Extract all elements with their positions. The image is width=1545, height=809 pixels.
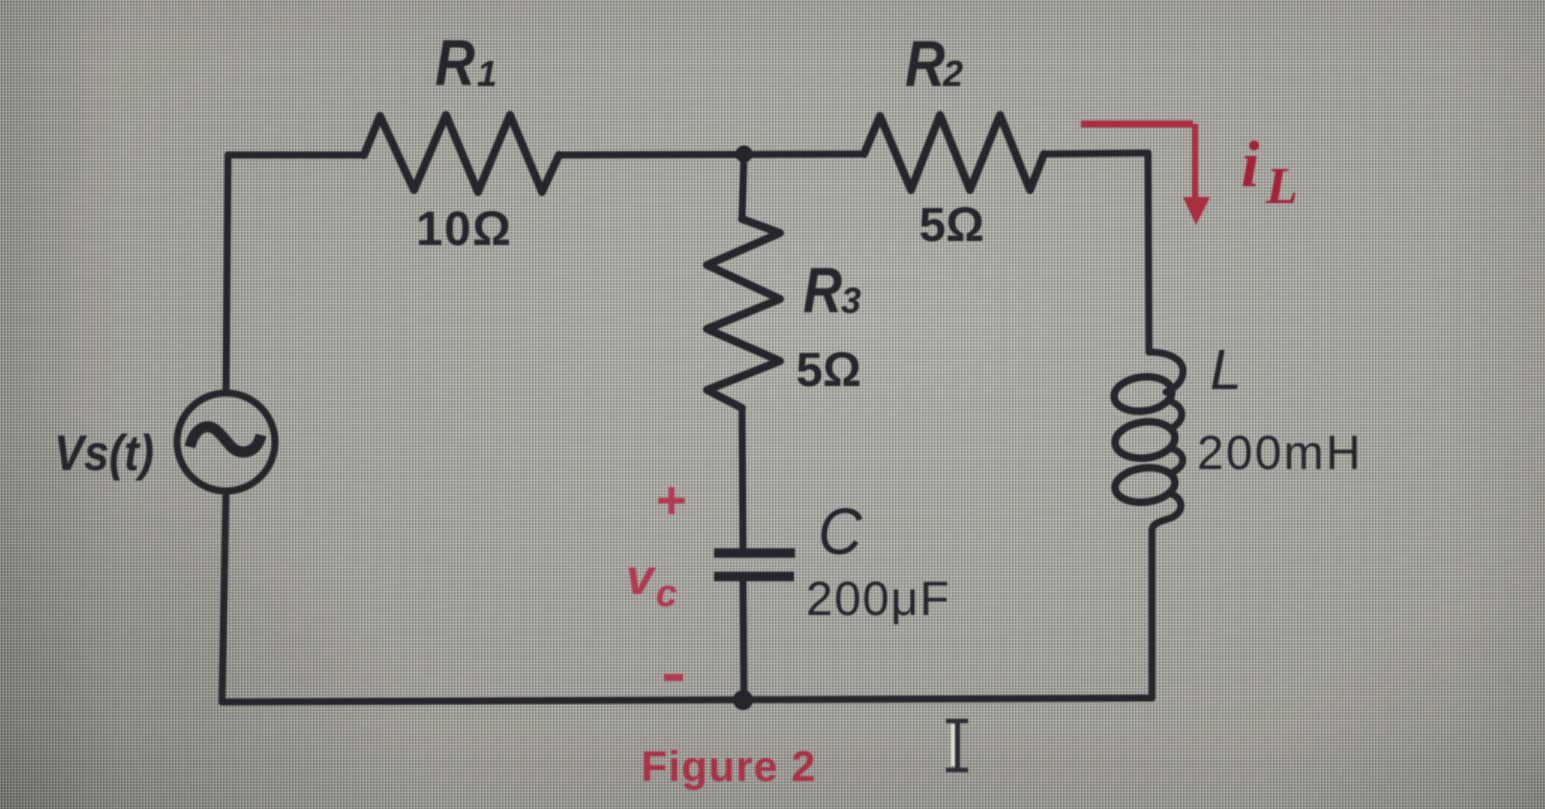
svg-text:1: 1 — [477, 53, 497, 94]
svg-text:2: 2 — [942, 53, 963, 94]
svg-text:3: 3 — [841, 280, 861, 321]
svg-text:10Ω: 10Ω — [416, 203, 512, 256]
svg-text:Figure 2: Figure 2 — [641, 743, 816, 791]
svg-text:L: L — [1265, 158, 1298, 215]
svg-text:200mH: 200mH — [1197, 427, 1363, 480]
svg-text:R: R — [803, 254, 842, 326]
svg-text:+: + — [656, 471, 687, 530]
svg-text:Vs(t): Vs(t) — [54, 425, 154, 481]
svg-text:vc: vc — [626, 549, 677, 615]
svg-text:R: R — [435, 26, 475, 99]
svg-text:5Ω: 5Ω — [919, 199, 984, 252]
svg-text:i: i — [1241, 128, 1260, 201]
svg-text:5Ω: 5Ω — [796, 344, 861, 397]
svg-text:R: R — [905, 27, 945, 100]
svg-text:C: C — [818, 494, 863, 568]
svg-text:L: L — [1210, 338, 1242, 402]
svg-text:200μF: 200μF — [806, 573, 951, 626]
